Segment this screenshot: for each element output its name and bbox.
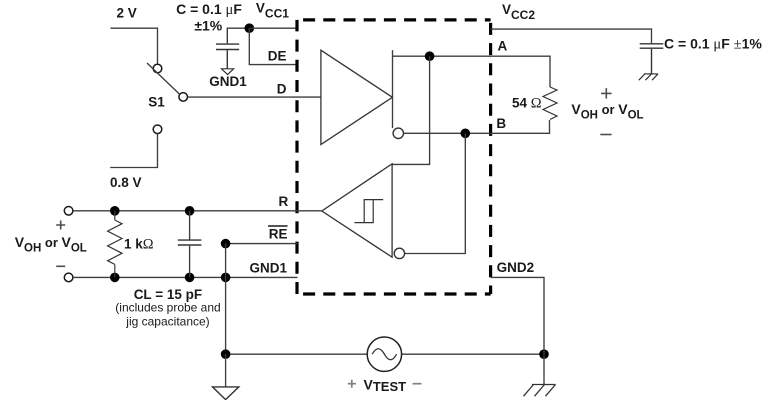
node VCC1 junction xyxy=(245,23,255,33)
svg-text:0.8 V: 0.8 V xyxy=(110,175,142,190)
svg-text:RE: RE xyxy=(269,227,288,242)
svg-text:VTEST: VTEST xyxy=(364,377,407,394)
node junction GND1/drop xyxy=(221,273,231,283)
receiver inverting input bubble xyxy=(394,248,404,258)
svg-text:S1: S1 xyxy=(148,95,165,110)
wire VCC2 xyxy=(491,29,652,43)
svg-text:C = 0.1 μF ±1%: C = 0.1 μF ±1% xyxy=(664,36,762,53)
node junction R/CL xyxy=(185,206,195,216)
wire GND1 xyxy=(73,276,298,278)
node junction R/1k xyxy=(110,206,120,216)
label − (left) xyxy=(56,265,65,267)
wire R xyxy=(73,210,322,212)
svg-text:C = 0.1 μF: C = 0.1 μF xyxy=(176,1,242,18)
svg-text:(includes probe and: (includes probe and xyxy=(115,301,220,315)
svg-text:54 Ω: 54 Ω xyxy=(512,96,542,112)
node junction rail left xyxy=(221,349,231,359)
node B junction xyxy=(461,129,471,139)
ground GND1 arrow below C xyxy=(222,69,234,75)
wire GND2 xyxy=(491,277,544,354)
switch S1 pole xyxy=(179,93,188,102)
wire drop from RE to rail xyxy=(225,244,227,355)
wire RE xyxy=(226,243,298,245)
label − (right) xyxy=(600,134,611,136)
wire DE xyxy=(249,28,297,64)
node junction RE xyxy=(221,239,231,249)
svg-text:GND1: GND1 xyxy=(249,261,287,276)
label + (right) xyxy=(601,88,612,99)
svg-text:B: B xyxy=(496,116,506,131)
svg-text:R: R xyxy=(279,194,289,209)
capacitor C (VCC2 bypass) xyxy=(640,44,664,74)
label + (left) xyxy=(56,221,65,230)
op-amp driver xyxy=(321,50,393,144)
label + VTEST − xyxy=(348,380,356,388)
svg-text:1 kΩ: 1 kΩ xyxy=(124,236,154,252)
wire D input xyxy=(188,96,321,98)
wire A xyxy=(393,56,551,87)
switch S1 blade xyxy=(147,63,180,94)
wire B xyxy=(404,120,550,133)
wire 2V source xyxy=(111,28,158,64)
wire VCC1 xyxy=(249,27,297,29)
driver inverting output bubble xyxy=(393,128,403,138)
bottom rail wire xyxy=(226,353,544,355)
node junction rail right xyxy=(539,349,549,359)
capacitor C (VCC1 bypass) xyxy=(216,28,249,69)
svg-text:GND1: GND1 xyxy=(209,74,247,89)
receiver hysteresis symbol xyxy=(354,200,383,223)
svg-text:±1%: ±1% xyxy=(194,18,222,34)
svg-text:A: A xyxy=(498,39,508,54)
ground (bottom left, open triangle) xyxy=(225,354,227,387)
svg-text:jig capacitance): jig capacitance) xyxy=(125,315,209,329)
svg-text:D: D xyxy=(277,81,287,96)
svg-text:2 V: 2 V xyxy=(116,6,136,21)
svg-text:DE: DE xyxy=(268,48,287,63)
wire 0.8V source xyxy=(110,134,157,168)
ground chassis below C2 xyxy=(639,74,658,80)
ground (earth, bottom right) xyxy=(543,354,545,384)
wire B to receiver bubble xyxy=(405,133,466,253)
IC boundary dashed box xyxy=(297,20,491,294)
node junction GND1/CL xyxy=(185,273,195,283)
wire driver output bar xyxy=(392,50,394,128)
capacitor CL xyxy=(178,211,202,278)
op-amp receiver xyxy=(322,164,392,257)
svg-text:GND2: GND2 xyxy=(497,260,535,275)
switch S1 throw contact (0.8V) xyxy=(153,125,162,134)
resistor 1 kohm xyxy=(108,211,122,278)
node A junction xyxy=(425,51,435,61)
wire A to receiver input xyxy=(392,56,429,164)
node junction GND1/1k xyxy=(110,273,120,283)
terminal R (open circle) xyxy=(64,207,73,216)
switch S1 throw contact (2V) xyxy=(153,64,162,73)
source VTEST xyxy=(367,337,401,371)
terminal GND1 (open circle) xyxy=(64,273,73,282)
resistor 54 ohm xyxy=(543,87,557,120)
